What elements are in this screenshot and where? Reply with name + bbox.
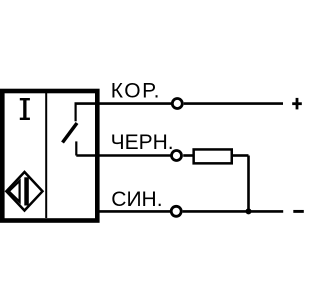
marking I (output indicator) <box>20 99 30 120</box>
svg-text:СИН.: СИН. <box>111 188 162 211</box>
terminal circle 1 <box>172 99 182 109</box>
minus polarity <box>293 210 304 213</box>
wire brown (KOR) <box>75 102 172 105</box>
terminal circle 2 <box>172 151 182 161</box>
wire down to minus rail <box>247 156 250 212</box>
wire blue right segment <box>183 210 284 213</box>
inductive sensor symbol (diamond) <box>6 172 42 211</box>
terminal circle 3 <box>171 206 181 216</box>
compartment divider <box>45 93 47 218</box>
wire blue (SIN) <box>95 210 170 213</box>
svg-text:КОР.: КОР. <box>111 80 161 103</box>
wire black (CHERN) <box>76 154 170 157</box>
wire from resistor <box>233 154 249 157</box>
junction dot <box>246 208 252 214</box>
wire brown right segment <box>184 102 283 105</box>
wire to load resistor <box>183 154 193 157</box>
switch contact (NO) <box>63 104 78 156</box>
load resistor <box>194 149 232 163</box>
svg-text:ЧЕРН.: ЧЕРН. <box>111 131 174 154</box>
sensor body box <box>2 91 97 221</box>
plus polarity <box>292 98 302 110</box>
